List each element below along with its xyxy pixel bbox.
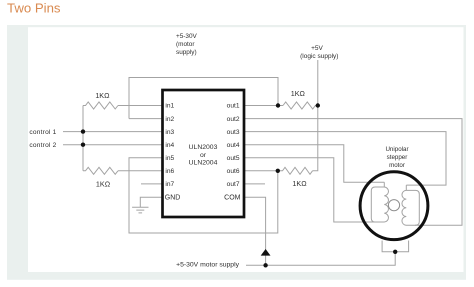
wire: bottom rail +5-30V motor supply [246,252,395,265]
resistor R4 1K (out6 pull-up) [278,167,313,174]
svg-text:out5: out5 [227,155,240,162]
wire: control 2 to in4 [63,144,163,146]
svg-text:in6: in6 [165,168,174,175]
wire: +5V vertical [313,60,318,171]
svg-text:+5-30V motor supply: +5-30V motor supply [176,262,240,269]
svg-text:control 2: control 2 [29,142,56,149]
wire: in1 from R1 to U1 [118,105,163,107]
svg-text:out2: out2 [227,116,240,123]
svg-text:out1: out1 [227,103,240,110]
svg-text:in2: in2 [165,116,174,123]
ground symbol [132,207,148,213]
svg-text:+5V: +5V [311,45,323,52]
node: control2/R1 junction [81,143,85,147]
wire: in7 stub [141,183,163,185]
svg-text:in7: in7 [165,181,174,188]
IC U1 ULN2003/ULN2004 [163,90,245,217]
node: center-tap/rail junction [393,250,397,254]
svg-text:out3: out3 [227,129,240,136]
node: control1/R1 junction [81,129,85,133]
node: COM/motor-supply rail junction [263,263,267,267]
label: unipolar stepper motor [385,146,408,169]
svg-text:motor: motor [389,162,405,169]
wire: in2 [129,118,163,120]
motor M1 rotor circle [388,200,399,211]
svg-text:ULN2004: ULN2004 [189,159,218,166]
wire: out3 to motor right coil top [244,132,446,186]
svg-text:ULN2003: ULN2003 [189,144,218,151]
svg-text:Unipolar: Unipolar [385,146,408,153]
svg-text:+5-30V: +5-30V [176,33,198,40]
svg-text:1KΩ: 1KΩ [291,89,306,98]
svg-text:in5: in5 [165,155,174,162]
svg-text:supply): supply) [176,49,197,56]
svg-text:1KΩ: 1KΩ [95,91,110,100]
svg-text:out4: out4 [227,142,240,149]
wire: control 1 to in3 [63,131,163,133]
svg-text:1KΩ: 1KΩ [292,179,307,188]
wire: out6 to R4 [244,170,278,172]
svg-text:out6: out6 [227,168,240,175]
wire: R2 to in6 [118,170,163,172]
svg-text:Two Pins: Two Pins [7,1,61,16]
resistor R3 1K (out1 pull-up) [283,102,318,109]
supply arrow on COM line [261,249,271,256]
svg-text:(logic supply): (logic supply) [300,53,338,60]
motor M1 body circle [360,172,428,240]
wire: top rail (out1 to in2 feedback) [129,78,278,119]
net label: +5-30V motor supply (top) [176,33,198,56]
svg-text:in1: in1 [165,103,174,110]
svg-text:stepper: stepper [387,154,408,161]
svg-text:1KΩ: 1KΩ [96,180,111,189]
wire: GND pin [140,197,162,207]
motor M1 left coil [371,182,388,222]
node: out1 R3/+5V junction [316,103,320,107]
svg-text:in4: in4 [165,142,174,149]
wire: out2 to motor right coil bottom [244,119,462,226]
motor M1 right coil [402,185,419,225]
wire: in5 feedback from out6 [129,158,278,233]
resistor R2 1K (in6 pull) [83,167,118,174]
wire: out4 to motor left coil top [244,145,384,183]
svg-text:COM: COM [224,194,241,201]
node: out6/R4 junction [276,169,280,173]
wire: motor center-tap bracket [382,241,409,252]
wire: out7 stub [244,183,265,185]
resistor R1 1K (in1 pull) [83,102,118,109]
wire: COM to motor supply [244,197,266,265]
net label: +5V logic supply [300,45,338,60]
wire: out5 to motor left coil bottom [244,158,375,222]
svg-text:out7: out7 [227,181,240,188]
svg-text:(motor: (motor [176,41,195,48]
svg-text:GND: GND [165,194,181,201]
svg-text:in3: in3 [165,129,174,136]
wire: out1 to R3 [244,105,283,107]
svg-text:control 1: control 1 [29,129,56,136]
wire: R1 left leg vertical with control taps [82,106,84,171]
U1 part number label [189,144,218,166]
node: out1/rail junction [276,103,280,107]
svg-text:or: or [200,152,207,159]
